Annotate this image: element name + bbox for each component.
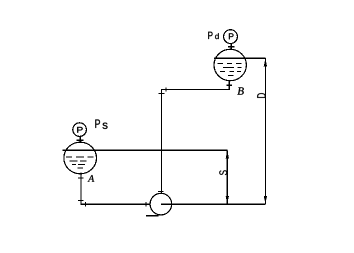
tank T1 liquid dashes	[66, 157, 93, 168]
wire suction horizontal to pump	[80, 203, 150, 205]
tick right of suction corner	[85, 202, 87, 206]
tick at pump suction	[145, 202, 147, 206]
gauge PG1 circle	[73, 123, 87, 137]
tank T2 (discharge tank)	[214, 49, 246, 80]
tick below discharge corner	[158, 93, 164, 95]
label dimension S	[219, 170, 227, 175]
tick node B	[226, 84, 232, 86]
pump base line	[146, 215, 159, 217]
wire riser into tank T2 (node B)	[228, 81, 230, 90]
label Pd letter d	[215, 33, 219, 39]
wire pump discharge vertical riser	[160, 89, 162, 193]
tank T2 liquid dashes	[217, 63, 241, 75]
tank T1 (suction tank)	[64, 142, 97, 174]
gauge PG2 circle	[224, 30, 238, 44]
tick on gauge PG1 wire	[77, 139, 84, 141]
tick above suction corner	[78, 199, 84, 201]
tank T1 liquid level line / pipe to dimension S	[63, 149, 228, 151]
label node B	[237, 87, 243, 94]
dimension D arrow up	[264, 59, 267, 67]
wire gauge PG2 to tank T2	[230, 43, 232, 50]
wire gauge PG1 to tank T1	[79, 136, 81, 142]
dimension S line	[226, 150, 228, 204]
pump P1 circle	[150, 193, 172, 215]
tick right of discharge corner	[165, 87, 167, 91]
dimension D arrow down	[264, 196, 267, 204]
label node A	[88, 175, 95, 181]
tick node A	[78, 177, 84, 179]
gauge PG1 letter P	[77, 127, 82, 133]
label Ps letter P	[95, 120, 100, 128]
gauge PG2 letter P	[229, 33, 234, 39]
tick at pump discharge top	[158, 190, 163, 192]
datum line (pump centerline)	[161, 203, 266, 205]
label Ps letter s	[103, 123, 108, 129]
label Pd letter P	[208, 32, 212, 39]
wire discharge horizontal to tank T2	[161, 88, 229, 90]
dimension S arrow up	[226, 151, 229, 159]
wire tank T1 outlet (node A drop)	[80, 173, 82, 205]
tank T2 liquid level line / pipe to dimension D	[214, 57, 266, 59]
label dimension D	[257, 93, 265, 98]
dimension S arrow down	[226, 196, 229, 204]
tick on gauge PG2 wire	[228, 46, 235, 48]
dimension D line	[264, 58, 266, 204]
